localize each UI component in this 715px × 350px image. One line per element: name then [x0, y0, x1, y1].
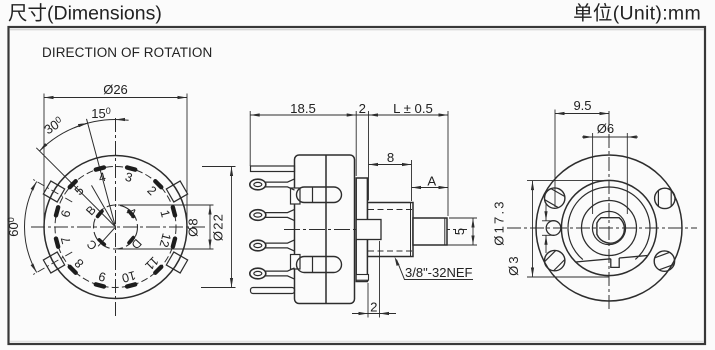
dim 5 ext top: [449, 217, 477, 219]
dim Ø26 arrow right: [178, 96, 188, 99]
terminal pad 4: [93, 165, 107, 173]
dim Ø26 ext right: [186, 94, 188, 225]
bushing thread dashed bottom: [368, 250, 413, 252]
mounting hole lower-left: [545, 250, 565, 270]
common pad C: [97, 237, 107, 247]
bushing thread dashed top: [368, 209, 413, 211]
dim 9.5 ext left: [554, 110, 556, 208]
svg-text:Ø6: Ø6: [597, 121, 614, 136]
shaft: [413, 218, 447, 245]
svg-text:Ø8: Ø8: [186, 217, 201, 237]
svg-text:2: 2: [144, 183, 159, 198]
stop tab: [611, 258, 619, 267]
dim 9.5 arrow right: [600, 112, 610, 115]
mounting notch at 60 deg: [166, 181, 187, 202]
15 deg arrow left: [78, 123, 88, 127]
60 deg arrow bottom: [31, 263, 37, 272]
svg-text:9.5: 9.5: [573, 98, 591, 113]
60 deg arrow top: [31, 182, 37, 191]
svg-text:A: A: [427, 174, 436, 189]
svg-text:4: 4: [97, 170, 107, 185]
svg-text:8: 8: [72, 256, 87, 271]
contact slot lower: [297, 257, 342, 273]
svg-text:9: 9: [97, 269, 107, 284]
dim Ø3 ext top: [542, 220, 555, 222]
svg-text:6: 6: [58, 209, 73, 219]
dim Ø17.3 ext bottom: [527, 276, 609, 278]
body divider line: [325, 155, 327, 304]
svg-text:18.5: 18.5: [290, 101, 316, 116]
contact slot upper tangent: [312, 187, 314, 203]
stop plate chord: [576, 256, 648, 263]
svg-text:Ø22: Ø22: [211, 213, 226, 241]
dim 8 arrow left: [369, 163, 379, 166]
locating hole Ø3: [546, 221, 561, 236]
dim Ø6 arrow left: [583, 135, 593, 138]
terminal pad 1: [170, 205, 178, 219]
dim Ø17.3 arrow bottom: [531, 268, 534, 278]
terminal block upper: [291, 188, 301, 204]
dim Ø26 ext left: [43, 94, 45, 225]
mounting hole upper-left: [545, 188, 565, 208]
dim Ø3 arrow bottom: [544, 235, 547, 245]
frame echo bottom: [10, 340, 704, 342]
dim Ø8 line: [209, 205, 211, 249]
dim 2b ext left: [367, 283, 369, 318]
dim A line: [412, 187, 449, 189]
15 deg arrow right: [116, 118, 126, 121]
svg-text:7: 7: [58, 235, 73, 245]
dim L arrow right: [439, 113, 449, 116]
dim 2b arrow right: [380, 312, 390, 315]
terminal pad 5: [67, 178, 79, 190]
15 deg line: [87, 119, 116, 227]
mounting hole lower-right: [654, 251, 674, 271]
dim Ø6 line: [582, 136, 638, 138]
svg-text:2: 2: [359, 101, 366, 116]
shaft end inner line: [444, 218, 446, 245]
bushing 3/8in body: [367, 203, 413, 257]
svg-text:600: 600: [6, 217, 21, 236]
dim Ø8 ext top: [118, 204, 214, 206]
svg-text:2: 2: [370, 300, 377, 315]
wiper line: [92, 185, 116, 227]
terminal pad 12: [170, 236, 178, 250]
eyelet terminal 3: [250, 240, 266, 251]
dim 9.5 arrow left: [555, 112, 565, 115]
dim Ø22 ext top: [202, 166, 236, 168]
side view centerline: [284, 229, 467, 231]
dim Ø17.3 line: [532, 181, 534, 277]
eyelet terminal 2: [250, 210, 266, 221]
bushing face inner line: [410, 203, 412, 257]
dim Ø22 ext bottom: [201, 287, 236, 289]
terminal pad 2: [152, 178, 164, 190]
dim A arrow left: [412, 186, 422, 189]
terminal pad 11: [152, 264, 164, 276]
left view vertical centerline: [115, 118, 117, 318]
dim 8 arrow right: [402, 163, 412, 166]
dim Ø26 line: [44, 97, 187, 99]
dim Ø8 ext bottom: [118, 248, 214, 250]
mounting hole upper-right: [655, 188, 675, 208]
terminal pad 7: [53, 236, 61, 250]
30 deg arrow ccw end: [39, 143, 47, 151]
dim Ø6 ext left: [592, 133, 594, 214]
front shaft circle Ø6: [592, 211, 625, 244]
line to C pad: [98, 227, 115, 246]
ext line x448 (shaft end): [447, 111, 449, 216]
dim Ø8 arrow bottom: [208, 240, 211, 250]
dim Ø8 arrow top: [208, 205, 211, 215]
30 deg arrow cw end: [78, 123, 88, 127]
mounting notch at 120 deg: [166, 252, 187, 273]
dim Ø3 arrow top: [544, 211, 547, 221]
terminal block lower: [291, 255, 301, 270]
terminal pad 6: [53, 205, 61, 219]
svg-text:DIRECTION OF ROTATION: DIRECTION OF ROTATION: [42, 45, 212, 60]
dim Ø3 line top: [545, 203, 547, 221]
svg-text:Ø26: Ø26: [103, 82, 128, 97]
dim Ø6 ext right: [626, 133, 628, 214]
terminal pad 9: [93, 282, 107, 290]
dim 18.5 arrow left: [250, 113, 260, 116]
dim 5 line: [472, 218, 474, 245]
dim 5 ext bottom: [447, 244, 477, 246]
dim A arrow right: [439, 186, 449, 189]
dim Ø17.3 arrow top: [531, 181, 534, 191]
dim 8 ext right: [411, 160, 413, 201]
front view horizontal centerline: [507, 227, 697, 229]
flange lug: [356, 275, 368, 281]
terminal pad 10: [124, 282, 138, 290]
dim 9.5 line: [555, 113, 609, 115]
svg-text:5: 5: [452, 228, 467, 235]
mounting flange plate: [356, 178, 367, 282]
svg-text:10: 10: [120, 268, 137, 285]
dim Ø22 arrow top: [230, 167, 233, 177]
eyelet terminal 1: [250, 179, 266, 190]
ext line x250 (tab end): [249, 111, 251, 166]
dim Ø3 line bottom: [545, 235, 547, 253]
svg-text:L ± 0.5: L ± 0.5: [393, 101, 433, 116]
left view horizontal centerline: [31, 226, 205, 228]
dim Ø6 arrow right: [627, 135, 637, 138]
dim 2b arrow left: [359, 312, 369, 315]
svg-text:1: 1: [157, 209, 172, 219]
svg-text:Ø17.3: Ø17.3: [492, 199, 507, 245]
front boss circle Ø17.3: [561, 180, 656, 275]
top tab terminal: [251, 166, 295, 172]
dim Ø17.3 ext top: [527, 180, 609, 182]
svg-text:单位(Unit):mm: 单位(Unit):mm: [573, 3, 701, 25]
switch body: [295, 155, 355, 304]
dim 5 arrow top: [471, 218, 474, 228]
front shaft D-flat shape: [597, 218, 625, 243]
terminal pad 8: [67, 264, 79, 276]
mounting notch at 240 deg: [43, 252, 64, 273]
dim Ø22 line: [231, 167, 233, 288]
shaft boss: [356, 220, 381, 240]
30 deg dim arc: [39, 123, 87, 151]
svg-text:3: 3: [124, 170, 134, 185]
dim 5 arrow bottom: [471, 236, 474, 246]
left view outer circle Ø26: [44, 156, 187, 299]
notch centerline at 300 deg: [32, 179, 73, 203]
dim Ø26 arrow left: [44, 96, 54, 99]
eyelet terminal 4: [250, 268, 266, 279]
front bushing circle: [582, 201, 637, 256]
dim 2b ext right: [379, 241, 381, 318]
15 deg dim arc: [74, 120, 129, 129]
ext line x356 (flange face): [355, 111, 357, 176]
dim Ø3 ext bottom: [542, 234, 555, 236]
front view vertical centerline: [608, 111, 610, 312]
common pad B: [95, 209, 104, 219]
bottom tab terminal: [251, 288, 295, 294]
dim 8 line: [369, 164, 412, 166]
svg-text:8: 8: [387, 150, 394, 165]
contact slot lower tangent: [312, 257, 314, 273]
notch centerline at 240 deg: [32, 252, 73, 276]
svg-text:Ø3: Ø3: [506, 254, 521, 276]
thread leader arrow: [395, 257, 400, 266]
30 deg line / B line: [36, 148, 115, 227]
dim Ø22 arrow bottom: [230, 278, 233, 288]
dim 2/L arrow at 368.5: [369, 113, 379, 116]
svg-text:尺寸(Dimensions): 尺寸(Dimensions): [8, 3, 162, 25]
left view terminal circle Ø22 (dashed): [55, 167, 176, 288]
contact slot upper: [297, 187, 342, 203]
svg-text:3/8"-32NEF: 3/8"-32NEF: [405, 265, 473, 280]
ext line x368.5 (bushing face): [368, 111, 370, 201]
top dim line: [250, 114, 448, 116]
common pad A: [126, 209, 135, 219]
terminal pad 3: [124, 165, 138, 173]
common pad D: [126, 235, 135, 245]
front stop plate arc: [568, 187, 650, 260]
dim 18.5/2 arrow at 356: [347, 113, 357, 116]
frame echo top: [10, 29, 704, 31]
svg-text:A: A: [124, 205, 140, 221]
left view hub circle Ø8 (dashed): [94, 205, 138, 249]
60 deg dim arc: [24, 182, 36, 273]
front flange circle: [536, 155, 682, 301]
dim 2b line: [352, 313, 396, 315]
mounting notch at 300 deg: [43, 181, 64, 202]
svg-text:12: 12: [156, 232, 173, 249]
thread leader: [397, 260, 474, 280]
svg-text:150: 150: [91, 106, 110, 121]
